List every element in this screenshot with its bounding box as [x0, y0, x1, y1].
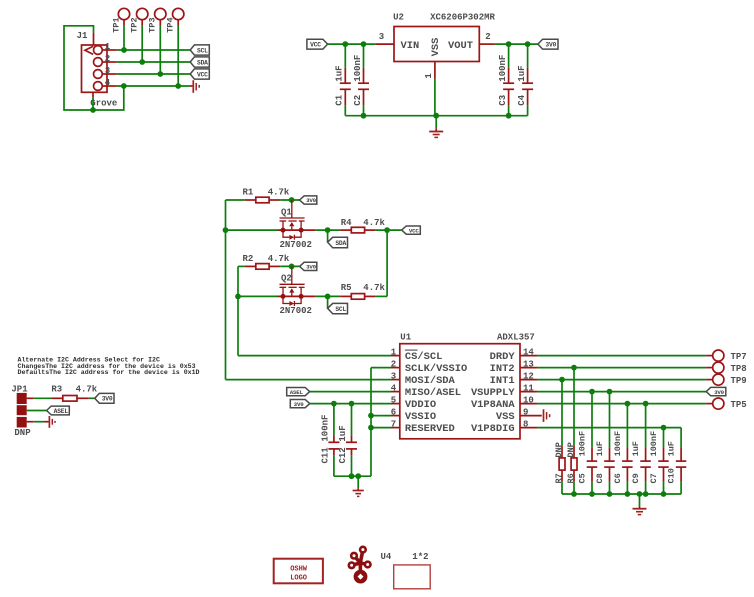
svg-text:CS/SCL: CS/SCL: [405, 351, 442, 363]
svg-text:11: 11: [523, 383, 534, 393]
junction rail C6: [625, 491, 631, 497]
wire pin10 to TP5: [537, 403, 706, 405]
svg-text:ASEL: ASEL: [54, 408, 69, 415]
junction R1/3V0/gate: [289, 197, 295, 203]
svg-text:100nF: 100nF: [498, 55, 508, 82]
svg-text:100nF: 100nF: [578, 431, 588, 457]
svg-text:3V0: 3V0: [294, 401, 305, 408]
wire pin11 to 3V0: [537, 391, 706, 393]
svg-text:TP4: TP4: [166, 17, 176, 32]
U1 pin 12 INT1: [520, 379, 537, 381]
U1 pin 5: [391, 403, 400, 405]
junction C5 top: [589, 389, 595, 395]
svg-text:VDDIO: VDDIO: [405, 399, 436, 411]
svg-text:2: 2: [105, 54, 110, 64]
testpoint TP9: [713, 374, 747, 386]
junction R7 top: [559, 377, 565, 383]
svg-text:VSSIO: VSSIO: [405, 411, 436, 423]
svg-text:ADXL357: ADXL357: [497, 332, 535, 342]
svg-text:5: 5: [391, 395, 396, 405]
svg-text:SDA: SDA: [197, 59, 208, 66]
svg-text:VCC: VCC: [409, 227, 420, 234]
U1 pin 10 V1P8ANA: [520, 403, 537, 405]
regulator U2 XC6206P302MR: [393, 12, 495, 61]
svg-text:VIN: VIN: [401, 40, 420, 52]
ground pin9: [544, 409, 550, 422]
svg-text:R6: R6: [566, 473, 576, 483]
U1 pin 7: [391, 427, 400, 429]
svg-text:C11: C11: [321, 447, 331, 464]
svg-text:1uF: 1uF: [338, 425, 348, 441]
J1 shield pin bottom: [92, 92, 94, 97]
junction Q1 drain: [223, 227, 229, 233]
flag 3V0 pin11: [706, 387, 726, 396]
wire shield bottom stub: [92, 98, 94, 110]
transistor Q2 2N7002: [278, 266, 316, 316]
junction pin7: [368, 425, 374, 431]
U1 pin 1: [391, 355, 400, 357]
svg-text:RESERVED: RESERVED: [405, 423, 455, 435]
U1 pin 14 DRDY: [520, 355, 537, 357]
resistor R5 4.7k: [340, 283, 387, 299]
svg-text:3: 3: [105, 66, 110, 76]
svg-text:6: 6: [391, 407, 396, 417]
flag VCC R4: [402, 226, 421, 234]
svg-text:100nF: 100nF: [649, 431, 659, 457]
label VCC: [190, 69, 209, 79]
svg-text:SDA: SDA: [335, 240, 346, 247]
svg-text:2: 2: [391, 359, 396, 369]
svg-text:C5: C5: [578, 473, 588, 483]
svg-text:DNP: DNP: [14, 428, 31, 438]
U1 pin 8 V1P8DIG: [520, 427, 537, 429]
svg-text:4: 4: [105, 78, 111, 88]
svg-text:9: 9: [523, 407, 528, 417]
wire pin5: [310, 403, 391, 405]
svg-text:VCC: VCC: [310, 42, 321, 49]
U1 pin 3: [391, 379, 400, 381]
wire VCC to VIN: [328, 43, 376, 45]
svg-text:VSUPPLY: VSUPPLY: [471, 387, 515, 399]
svg-text:TP3: TP3: [148, 17, 158, 32]
svg-text:1: 1: [424, 73, 434, 79]
junction rail C8: [607, 491, 613, 497]
svg-text:V1P8DIG: V1P8DIG: [471, 423, 515, 435]
junction C6 top: [625, 401, 631, 407]
junction C1 top: [342, 41, 348, 47]
svg-text:U4: U4: [381, 552, 392, 562]
junction C12 top: [349, 401, 355, 407]
svg-text:Q1: Q1: [281, 207, 292, 217]
svg-text:C1: C1: [335, 94, 345, 105]
label SCL: [190, 45, 209, 55]
U1 pin 2: [391, 367, 400, 369]
svg-text:VCC: VCC: [197, 71, 208, 78]
wire J1 shield loop: [64, 26, 124, 110]
capacitor C12 1uF: [338, 404, 357, 477]
wire SCL label stub: [327, 296, 329, 308]
wire JP1 pin3 to gnd: [33, 421, 44, 423]
ground C11/C12: [353, 476, 364, 496]
capacitor C4 1uF: [517, 44, 533, 116]
junction SCL label: [325, 294, 331, 300]
junction C4 top: [525, 41, 531, 47]
wire GND row: [117, 85, 190, 87]
accelerometer U1 ADXL357: [400, 332, 535, 438]
svg-text:INT2: INT2: [490, 363, 515, 375]
wire pin12 to TP9: [537, 379, 706, 381]
svg-text:XC6206P302MR: XC6206P302MR: [430, 12, 495, 22]
junction TP3/VCC: [157, 71, 163, 77]
svg-text:DNP: DNP: [554, 442, 564, 457]
capacitor C2 100nF: [353, 44, 369, 116]
svg-text:1uF: 1uF: [595, 441, 605, 456]
svg-text:1uF: 1uF: [517, 65, 527, 81]
svg-text:V1P8ANA: V1P8ANA: [471, 399, 515, 411]
flag VCC U2: [307, 39, 328, 49]
wire pin4: [310, 391, 391, 393]
J1 pin 3: [94, 66, 117, 78]
flag 3V0 R1: [300, 196, 317, 204]
wire JP1 to R3: [33, 397, 52, 399]
junction C11 top: [331, 401, 337, 407]
svg-text:TP8: TP8: [731, 364, 747, 374]
wire SCL row: [117, 49, 191, 51]
junction R2/3V0/gate: [289, 264, 295, 270]
junction TP2/SDA: [139, 59, 145, 65]
svg-text:LOGO: LOGO: [290, 575, 307, 583]
U1 pin 13 INT2: [520, 367, 537, 369]
label ASEL U1: [287, 388, 310, 396]
capacitor C6 100nF: [613, 404, 633, 494]
testpoint TP8: [713, 362, 747, 374]
svg-text:4.7k: 4.7k: [268, 254, 290, 264]
junction C7 top: [661, 425, 667, 431]
junction R6 top: [571, 365, 577, 371]
svg-text:1: 1: [105, 42, 111, 52]
flag 3V0 U2 out: [538, 39, 558, 49]
svg-text:2: 2: [485, 32, 490, 42]
svg-text:C6: C6: [613, 473, 623, 483]
U2 pin 1 VSS: [424, 62, 435, 116]
svg-text:1uF: 1uF: [335, 65, 345, 81]
svg-text:R3: R3: [51, 384, 62, 394]
svg-text:13: 13: [523, 359, 534, 369]
svg-text:TP5: TP5: [731, 400, 747, 410]
junction rail C5: [589, 491, 595, 497]
wire pin2 vertical to gnd rail: [370, 368, 372, 477]
resistor R3 4.7k: [51, 384, 97, 401]
svg-text:DRDY: DRDY: [490, 351, 516, 363]
junction C8 top: [607, 389, 613, 395]
svg-text:3V0: 3V0: [306, 264, 317, 271]
svg-text:1*2: 1*2: [412, 552, 428, 562]
capacitor C1 1uF: [335, 44, 351, 116]
label SCL flag: [328, 303, 348, 313]
svg-text:OSHW: OSHW: [290, 566, 308, 574]
svg-text:14: 14: [523, 347, 534, 357]
svg-text:VSS: VSS: [430, 38, 442, 57]
junction C3 top: [506, 41, 512, 47]
capacitor C7 100nF: [649, 428, 669, 494]
junction rail C3: [506, 113, 512, 119]
svg-text:2N7002: 2N7002: [280, 306, 312, 316]
svg-text:TP2: TP2: [130, 17, 140, 32]
ground U2: [429, 116, 443, 138]
wire C11 gnd rail: [334, 475, 371, 477]
testpoint TP4: [166, 8, 184, 86]
svg-text:10: 10: [523, 395, 534, 405]
wire VCC row: [117, 73, 191, 75]
svg-text:100nF: 100nF: [321, 415, 331, 442]
testpoint TP3: [148, 8, 166, 74]
svg-text:C3: C3: [498, 95, 508, 106]
ground cap bank: [633, 494, 647, 515]
junction rail C9: [643, 491, 649, 497]
svg-text:C7: C7: [649, 473, 659, 483]
svg-text:SCLK/VSSIO: SCLK/VSSIO: [405, 363, 467, 375]
flag 3V0 R3: [95, 393, 114, 403]
svg-text:C2: C2: [353, 95, 363, 106]
svg-text:1: 1: [391, 347, 397, 357]
junction TP4/GND: [175, 83, 181, 89]
svg-text:Grove: Grove: [90, 98, 117, 108]
svg-text:100nF: 100nF: [353, 55, 363, 82]
note text I2C address: [18, 357, 200, 376]
resistor R7 DNP: [554, 380, 565, 494]
wire ground rail U2: [345, 115, 527, 117]
svg-text:12: 12: [523, 371, 534, 381]
U1 pin 11 VSUPPLY: [520, 391, 537, 393]
svg-text:SCL: SCL: [197, 47, 208, 54]
svg-text:4.7k: 4.7k: [76, 384, 98, 394]
flag 3V0 U1: [290, 400, 309, 408]
svg-text:3V0: 3V0: [102, 396, 113, 403]
capacitor C10 1uF: [667, 428, 687, 494]
junction C9 top: [643, 401, 649, 407]
junction SDA label: [325, 227, 331, 233]
OSHW gear logo U3: [348, 546, 372, 584]
junction rail VSS: [433, 113, 439, 119]
svg-text:R2: R2: [243, 254, 254, 264]
capacitor C5 100nF: [578, 392, 598, 494]
svg-text:4.7k: 4.7k: [363, 218, 385, 228]
junction shield bottom: [90, 107, 96, 113]
wire pin8: [537, 427, 681, 429]
svg-text:ASEL: ASEL: [290, 389, 304, 396]
label SDA flag: [328, 237, 348, 247]
wire VCC vertical to R5: [386, 230, 388, 296]
wire pin13 to TP8: [537, 367, 706, 369]
testpoint TP1: [111, 8, 129, 50]
capacitor C3 100nF: [498, 44, 514, 116]
junction C12 bottom: [349, 473, 355, 479]
svg-text:U2: U2: [393, 12, 404, 22]
svg-text:R1: R1: [243, 188, 254, 198]
wire Q2 source to R5: [316, 295, 340, 297]
label SDA: [190, 57, 209, 67]
capacitor C11 100nF: [321, 404, 340, 477]
junction R4/VCC: [384, 227, 390, 233]
ground JP1: [45, 416, 56, 428]
JP1 pin 1 stub: [27, 397, 34, 399]
resistor R6 DNP: [566, 368, 577, 494]
svg-text:3V0: 3V0: [714, 389, 725, 396]
svg-text:INT1: INT1: [490, 375, 515, 387]
svg-text:TP7: TP7: [731, 352, 747, 362]
wire SDA label stub: [327, 230, 329, 242]
svg-text:2N7002: 2N7002: [280, 240, 312, 250]
svg-text:U1: U1: [400, 332, 411, 342]
U2 pin 3 VIN: [376, 43, 394, 45]
wire pin7: [371, 427, 391, 429]
svg-text:C12: C12: [338, 447, 348, 463]
capacitor C8 1uF: [595, 392, 615, 494]
wire SCL-low vertical: [237, 266, 239, 355]
J1 pin 2: [94, 54, 117, 66]
wire Q2 drain: [238, 295, 278, 297]
wire Q1 drain: [226, 229, 278, 231]
junction Q2 drain: [235, 294, 241, 300]
capacitor C9 1uF: [631, 404, 651, 494]
junction rail C2: [361, 113, 367, 119]
svg-text:C8: C8: [595, 473, 605, 483]
wire SDA row: [117, 61, 191, 63]
svg-text:SCL: SCL: [335, 306, 346, 313]
junction rail C7: [661, 491, 667, 497]
svg-text:3V0: 3V0: [545, 42, 556, 49]
svg-text:100nF: 100nF: [613, 431, 623, 457]
junction C2 top: [361, 41, 367, 47]
resistor R2 4.7k: [238, 254, 300, 269]
wire Q1 source to R4: [316, 229, 340, 231]
svg-text:C9: C9: [631, 473, 641, 483]
OSHW logo frame: [274, 559, 323, 584]
label ASEL JP1: [47, 406, 70, 415]
svg-text:8: 8: [523, 419, 528, 429]
svg-text:VSS: VSS: [496, 411, 515, 423]
svg-text:1uF: 1uF: [631, 441, 641, 456]
wire pin1 from SCL-low: [238, 355, 391, 357]
junction gnd tap: [355, 473, 361, 479]
svg-text:VOUT: VOUT: [448, 40, 473, 52]
wire pin14 to TP7: [537, 355, 706, 357]
J1 pin 1: [94, 42, 117, 54]
svg-text:1uF: 1uF: [667, 441, 677, 456]
fiducial U4 1*2: [381, 552, 431, 589]
U1 pin 6: [391, 415, 400, 417]
svg-text:R5: R5: [341, 283, 352, 293]
svg-text:MOSI/SDA: MOSI/SDA: [405, 375, 456, 387]
wire VOUT to 3V0: [495, 43, 538, 45]
wire SDA-low vertical: [225, 200, 227, 380]
svg-text:3: 3: [391, 371, 396, 381]
wire pin6: [371, 415, 391, 417]
testpoint TP2: [130, 8, 148, 62]
testpoint TP7: [713, 350, 747, 362]
connector J1 Grove: [77, 31, 118, 108]
junction rail R6: [571, 491, 577, 497]
JP1 pin 3 stub: [27, 421, 34, 423]
resistor R1 4.7k: [226, 188, 300, 203]
junction GND row left: [121, 83, 127, 89]
svg-text:3: 3: [379, 32, 384, 42]
svg-text:3V0: 3V0: [306, 197, 317, 204]
svg-text:R4: R4: [341, 218, 352, 228]
svg-text:4.7k: 4.7k: [363, 283, 385, 293]
svg-text:Q2: Q2: [281, 274, 292, 284]
U1 pin 9 VSS: [520, 415, 542, 417]
testpoint TP5: [713, 398, 747, 410]
svg-text:DefaultsThe I2C address for th: DefaultsThe I2C address for the device i…: [18, 369, 200, 376]
wire JP1 pin 2: [27, 410, 47, 412]
svg-text:J1: J1: [77, 31, 88, 41]
junction rail gnd tap: [637, 491, 643, 497]
svg-text:TP1: TP1: [111, 17, 121, 32]
svg-text:C10: C10: [667, 468, 677, 483]
junction pin6: [368, 413, 374, 419]
svg-text:4.7k: 4.7k: [268, 188, 290, 198]
svg-text:TP9: TP9: [731, 376, 747, 386]
J1 shield pin top: [93, 32, 95, 45]
svg-text:DNP: DNP: [566, 442, 576, 457]
flag 3V0 R2: [300, 262, 317, 270]
wire pin3 from SDA-low: [226, 379, 392, 381]
svg-text:R7: R7: [554, 473, 564, 483]
svg-text:4: 4: [391, 383, 397, 393]
ground J1: [190, 80, 199, 93]
junction TP1/SCL: [121, 47, 127, 53]
jumper JP1: [11, 384, 31, 437]
resistor R4 4.7k: [340, 218, 402, 233]
wire cap bank gnd rail: [562, 493, 681, 495]
transistor Q1 2N7002: [278, 200, 316, 250]
U1 pin 4: [391, 391, 400, 393]
wire pin2: [371, 367, 391, 369]
svg-text:MISO/ASEL: MISO/ASEL: [405, 387, 461, 399]
J1 pin 4: [94, 78, 117, 90]
svg-text:7: 7: [391, 419, 396, 429]
svg-text:C4: C4: [517, 94, 527, 105]
U2 pin 2 VOUT: [479, 43, 495, 45]
